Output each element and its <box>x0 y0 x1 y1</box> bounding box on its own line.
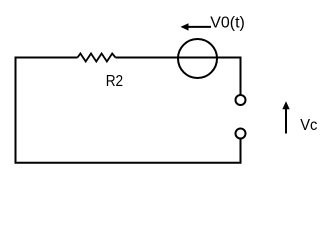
svg-text:V0(t): V0(t) <box>210 14 245 31</box>
resistor R2 <box>78 54 116 62</box>
terminal node bottom <box>236 129 246 139</box>
wire resistor to source <box>116 57 198 59</box>
wire top-left segment <box>16 58 78 69</box>
source U1 circle <box>178 39 217 78</box>
arrow V0(t) direction <box>181 23 212 30</box>
arrow Vc direction <box>282 101 289 133</box>
terminal node top <box>236 95 246 105</box>
wire terminal to bottom <box>16 57 241 163</box>
svg-text:R2: R2 <box>106 73 123 90</box>
svg-text:Vc: Vc <box>300 117 317 134</box>
wire source to right corner <box>197 58 241 95</box>
